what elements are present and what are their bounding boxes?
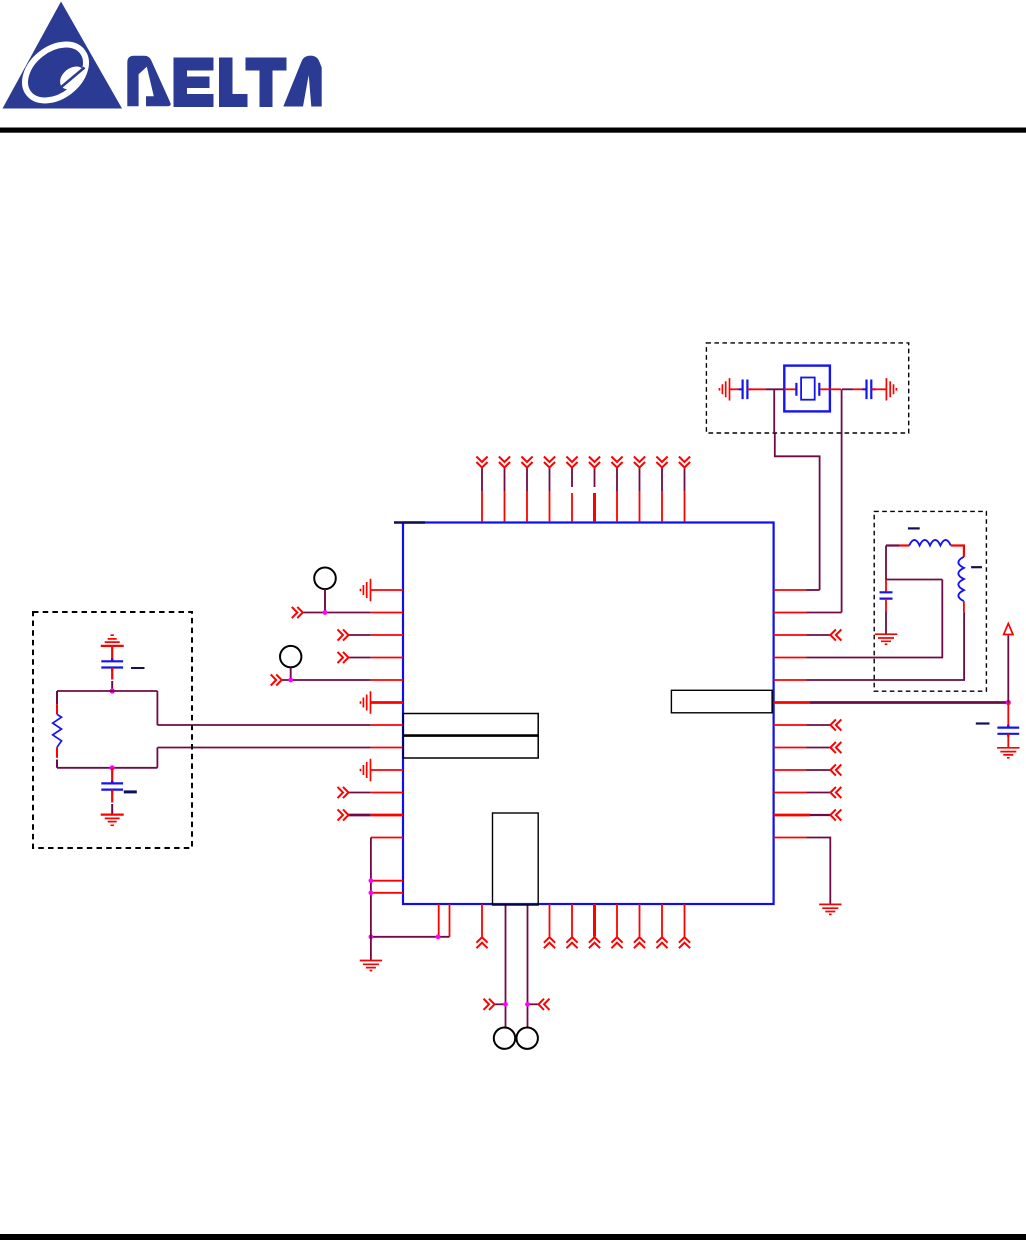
value dash L2: [971, 566, 982, 568]
node junction: [436, 934, 441, 939]
value dash C1: [131, 667, 145, 669]
wire crystal right pin: [820, 388, 830, 390]
resistor R1: [53, 714, 62, 747]
crystal plate right: [818, 383, 820, 396]
ground (sideways) left: [720, 378, 730, 400]
power symbol VCC triangle: [1004, 624, 1013, 635]
label dash on U1 top-left: [394, 521, 425, 523]
node junction: [288, 678, 293, 683]
wire row 680 to LC box: [774, 612, 965, 680]
wire top pin 1: [476, 457, 487, 523]
wire bottom pin 1: [476, 904, 487, 948]
wire top pin 2: [499, 457, 510, 523]
node junction: [369, 934, 374, 939]
wire cap C1 top lead: [111, 646, 113, 661]
wire row 725 from filter box: [157, 724, 403, 726]
wire cap C1 bottom lead: [111, 668, 113, 692]
wire branch to row 657: [886, 579, 942, 581]
wire arrow tail left: [495, 1003, 506, 1005]
node junction: [369, 890, 374, 895]
wire L1 right lead: [951, 546, 964, 557]
Delta logo triangle: [3, 2, 123, 112]
ground pin row 590: [361, 579, 404, 601]
wire row 892.8: [371, 892, 403, 894]
DELTA wordmark: [127, 56, 321, 107]
node junction: [110, 688, 115, 693]
dashed enclosure: [874, 511, 986, 691]
value dash C3: [976, 722, 990, 724]
connector block J1: [493, 813, 539, 905]
wire left rail: [370, 838, 372, 937]
footer rule: [0, 1234, 1026, 1240]
wire TP2 stub: [290, 667, 292, 680]
off-page arrow left: [484, 999, 495, 1010]
wire bottom pin 7: [611, 904, 622, 948]
wire row 815 (bold): [338, 809, 404, 820]
node junction: [525, 1002, 530, 1007]
dashed enclosure: [33, 612, 192, 848]
wire top pin 9: [656, 457, 667, 523]
wire row 837.5 to ground: [774, 838, 831, 905]
capacitor C3: [997, 725, 1019, 737]
wire crystal left pin: [784, 388, 795, 390]
wire L1 left lead: [886, 544, 909, 546]
op-amp U1 body: [403, 523, 774, 905]
wire row 770: [774, 764, 842, 775]
wire row 590 to crystal: [774, 433, 820, 590]
testpoint circle TP2: [280, 646, 301, 667]
wire bottom pin 10: [679, 904, 690, 948]
connector jack circle right: [517, 1028, 538, 1049]
capacitor C4: [738, 380, 751, 400]
wire bottom pin 5: [566, 904, 577, 948]
wire cap C3 bottom lead: [1007, 734, 1009, 748]
wire bottom pin 8: [634, 904, 645, 948]
wire cap C2 top lead: [111, 768, 113, 784]
wire crystal left drop: [773, 389, 775, 433]
crystal plate left: [795, 383, 797, 396]
value dash L1: [908, 527, 920, 529]
wire cap C6 bottom lead: [885, 599, 887, 634]
regulator block U2: [671, 690, 772, 713]
wire row 635: [774, 629, 842, 640]
wire top pin 8: [634, 457, 645, 523]
wire cap C3 top lead: [1007, 703, 1009, 728]
filter block FL1: [403, 714, 538, 759]
inductor L1: [909, 540, 951, 546]
wire crystal right drop: [841, 389, 843, 433]
connector jack circle left: [494, 1028, 515, 1049]
wire row 657.5 to LC box: [774, 580, 943, 658]
value dash C2: [124, 790, 137, 793]
wire arrow tail right: [528, 1003, 539, 1005]
wire row 612.5 to crystal: [774, 433, 842, 613]
wire row 635: [338, 629, 404, 640]
ground GND3: [997, 748, 1019, 758]
ground pin row 702.5 (bold): [361, 691, 404, 713]
wire row 657.5: [338, 652, 404, 663]
node junction: [323, 610, 328, 615]
capacitor C2: [101, 781, 123, 793]
wire bottom rail: [57, 767, 157, 769]
crystal Y1 outline: [784, 366, 830, 412]
capacitor C1: [101, 659, 123, 671]
wire to C4: [730, 388, 743, 390]
node junction: [369, 878, 374, 883]
wire GND pin A: [438, 904, 440, 937]
wire top pin 4: [544, 457, 555, 523]
wire C4 to crystal: [747, 388, 784, 390]
wire ground stem: [370, 937, 372, 960]
node junction: [503, 1002, 508, 1007]
wire top pin 5: [566, 457, 577, 523]
wire row 837.5: [371, 837, 403, 839]
off-page arrow right: [539, 999, 550, 1010]
wire row 747.5: [774, 742, 842, 753]
wire cap C6 top lead: [885, 580, 887, 593]
dashed enclosure: [706, 343, 908, 433]
wire row 792.5: [774, 787, 842, 798]
node junction: [110, 765, 115, 770]
wire row 680: [271, 674, 403, 685]
wire power stem up: [1007, 636, 1009, 703]
wire TP1 stub: [324, 589, 326, 612]
wire resistor top lead: [56, 691, 58, 704]
wire top pin 7: [611, 457, 622, 523]
wire row 702.5 power (bold): [774, 701, 1009, 704]
wire connector pin right: [527, 905, 529, 1028]
wire resistor bottom lead: [56, 747, 58, 758]
wire bottom pin 9: [656, 904, 667, 948]
wire top pin 6 (bold): [589, 457, 600, 523]
wire row 815 (bold): [774, 809, 842, 820]
wire bottom pin 4: [544, 904, 555, 948]
ground GND4: [819, 904, 841, 914]
wire bottom ground bus: [371, 936, 450, 938]
wire L1 left branch down: [885, 546, 887, 580]
node junction: [1006, 700, 1011, 705]
ground GND2: [101, 815, 124, 826]
wire L2 bottom lead: [963, 601, 965, 612]
wire cap C2 bottom lead: [111, 790, 113, 803]
inductor L2: [958, 557, 964, 601]
wire bottom pin 6 (bold): [589, 904, 600, 948]
wire row 747.5 from filter box: [157, 747, 403, 749]
wire top rail: [57, 690, 157, 692]
wire GND pin B: [449, 904, 451, 937]
ground GND1: [360, 961, 382, 971]
wire row 792.5: [338, 787, 404, 798]
wire top pin 10: [679, 457, 690, 523]
wire connector pin left: [505, 905, 507, 1028]
wire box output top: [156, 691, 158, 725]
wire row 880.7: [371, 880, 403, 882]
ground (sideways) right: [886, 378, 896, 400]
wire row 612.5: [292, 607, 403, 618]
capacitor C5: [862, 380, 875, 400]
wire crystal to C5: [830, 388, 867, 390]
crystal element: [801, 378, 815, 400]
ground pin row 770: [361, 759, 404, 781]
testpoint circle TP1: [314, 568, 336, 590]
wire top pin 3: [521, 457, 532, 523]
capacitor C6: [880, 592, 893, 598]
header rule: [0, 128, 1026, 133]
wire row 725: [774, 719, 842, 730]
wire box output bottom: [156, 748, 158, 768]
wire C5 to ground: [871, 388, 886, 390]
ground GND5: [875, 634, 897, 644]
power rail symbol (inverted ground): [101, 635, 124, 646]
